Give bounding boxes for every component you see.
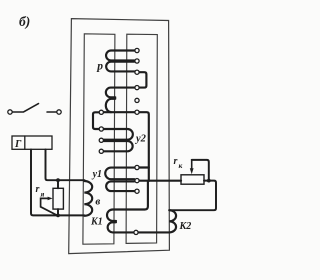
switch contact left (8, 110, 12, 114)
winding K1 turn 1 (hairpin) with feed wire from node (107, 181, 148, 221)
terminal 8 (135, 179, 139, 183)
switch fixed contact (47, 111, 57, 113)
svg-text:в: в (95, 196, 100, 208)
left terminal 1 (99, 110, 103, 114)
rk wiper arrow (191, 161, 193, 170)
wire node y112 left terminal to right terminal (103, 111, 134, 113)
winding Y1 turn 2 (hairpin) (106, 181, 135, 191)
terminal 7 (135, 165, 139, 169)
wire from terminal y180 to rheostat rk (139, 180, 181, 182)
svg-text:К2: К2 (179, 221, 192, 232)
right pole box (terminal board) (126, 34, 157, 243)
winding Y2 turn 1 (hairpin, bends right) (104, 129, 133, 140)
terminal 1 (135, 48, 139, 52)
terminal 6 (135, 110, 139, 114)
svg-text:К1: К1 (90, 217, 103, 228)
terminal 9 (135, 189, 139, 193)
wire from terminal y112 right, down right column (139, 112, 149, 181)
wire G left terminal down and right to bottom junction (31, 150, 85, 216)
svg-text:у2: у2 (134, 134, 147, 145)
winding K2 (2 arcs on stator right wall) (169, 210, 176, 232)
left terminal 4 (99, 149, 103, 153)
right terminal circles column (134, 48, 139, 234)
r_ya wiper arrow (41, 198, 57, 215)
winding V (3 arcs on left box wall) (84, 181, 92, 216)
wire G right terminal down and right to top junction, to winding V (46, 150, 85, 181)
terminal 2 (135, 59, 139, 63)
bracket wire joining terminals 3 and 4 on right (139, 72, 146, 87)
switch contact right (57, 110, 61, 114)
svg-text:Г: Г (14, 139, 22, 150)
generator G box (12, 136, 52, 149)
terminal 10 on bottom wire (134, 230, 138, 234)
terminal 3 (135, 70, 139, 74)
junction node top of r_ya (56, 178, 60, 182)
winding P2 turn 2 (hairpin with curl to left terminal) (106, 99, 115, 112)
winding Y2 turn 2 (hairpin, bends right) (104, 141, 133, 151)
switch blade (12, 104, 38, 112)
svg-text:р: р (96, 60, 103, 72)
winding K1 turn 2 (hairpin) continuing as bottom wire to K2 (108, 222, 170, 232)
svg-text:r: r (174, 156, 178, 167)
junction node at rk right terminal (207, 179, 211, 183)
svg-text:у1: у1 (92, 169, 102, 180)
r_ya top stub (57, 180, 59, 188)
junction node bottom of r_ya (56, 214, 60, 218)
left pole box (83, 34, 115, 244)
rk wiper bracket wire to right terminal (192, 160, 209, 181)
svg-text:r: r (36, 184, 40, 195)
wire from terminal y167 to right column (139, 166, 149, 168)
terminal 5 (unused) (135, 98, 139, 102)
svg-text:б): б) (19, 14, 30, 29)
winding Y1 turn 1 (hairpin) (105, 168, 135, 180)
rheostat rk body (181, 175, 204, 184)
wire rk right terminal down to winding K2 (169, 181, 216, 211)
left terminal circles column (99, 110, 103, 153)
left terminal 3 (99, 138, 103, 142)
svg-text:к: к (179, 161, 183, 170)
winding P turn 1 (hairpin) (106, 51, 135, 61)
winding P2 turn 1 (hairpin) (106, 88, 135, 98)
r_ya bottom stub (57, 209, 59, 215)
winding P turn 2 (hairpin) (106, 62, 135, 72)
left terminal 2 (99, 127, 103, 131)
rheostat r_ya body (53, 188, 63, 209)
machine stator outer frame (69, 19, 170, 254)
svg-text:я: я (40, 190, 45, 199)
terminal 4 (135, 86, 139, 90)
bracket wire joining terminals 1 and 2 on left (93, 112, 99, 129)
